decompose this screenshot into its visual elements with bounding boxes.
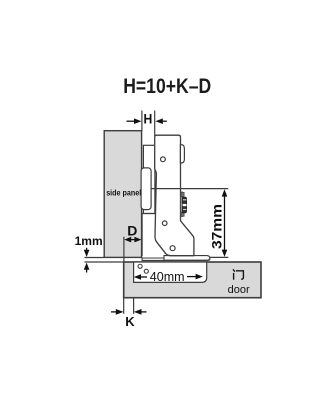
svg-text:40mm: 40mm bbox=[150, 270, 185, 284]
37mm bottom reference line bbox=[210, 256, 228, 258]
K extension line right (cup line) bbox=[133, 298, 135, 314]
D double arrow bbox=[124, 237, 141, 243]
37mm top reference line bbox=[151, 188, 229, 190]
door bbox=[124, 262, 261, 298]
svg-text:H: H bbox=[144, 111, 153, 127]
screw hole small 1 in cup area bbox=[138, 264, 142, 268]
K dimension arrows bbox=[111, 309, 147, 315]
base flange on door bbox=[142, 258, 210, 260]
1mm reference line upper (panel bottom extension) bbox=[85, 257, 105, 259]
svg-text:1mm: 1mm bbox=[75, 234, 103, 248]
arm screw hole bottom bbox=[170, 246, 175, 251]
hinge mounting plate on panel bbox=[141, 145, 155, 256]
svg-text:H=10+K–D: H=10+K–D bbox=[123, 74, 211, 98]
H left arrow bbox=[127, 118, 142, 124]
svg-text:door: door bbox=[228, 284, 250, 296]
1mm down arrow bbox=[84, 248, 90, 257]
H extension line left bbox=[141, 111, 143, 132]
D extension line (door edge through panel) bbox=[123, 237, 125, 262]
H right arrow bbox=[155, 118, 166, 124]
Chinese character door (drawn) bbox=[233, 269, 243, 279]
screw hole small 2 in cup area bbox=[144, 269, 148, 273]
1mm reference line lower (door top extension) bbox=[85, 261, 124, 263]
hinge cup recess (white box in door) bbox=[134, 262, 207, 282]
40mm dimension bbox=[134, 270, 203, 284]
37mm dimension line with arrows bbox=[222, 189, 228, 257]
arm screw hole middle bbox=[162, 221, 167, 226]
arm side tab (upper bump) bbox=[180, 145, 184, 163]
svg-text:37mm: 37mm bbox=[209, 204, 225, 249]
hinge arm body bbox=[155, 135, 194, 256]
svg-text:D: D bbox=[127, 223, 137, 239]
svg-text:K: K bbox=[125, 314, 135, 329]
K extension line left (door edge) bbox=[123, 298, 125, 314]
1mm up arrow bbox=[84, 263, 90, 273]
arm screw hole top bbox=[161, 157, 166, 162]
arm bottom plate bbox=[164, 256, 210, 261]
H extension line right bbox=[154, 111, 156, 137]
side panel bbox=[104, 131, 141, 258]
adjustment screw (side view) bbox=[181, 192, 187, 217]
svg-text:side panel: side panel bbox=[106, 189, 141, 198]
